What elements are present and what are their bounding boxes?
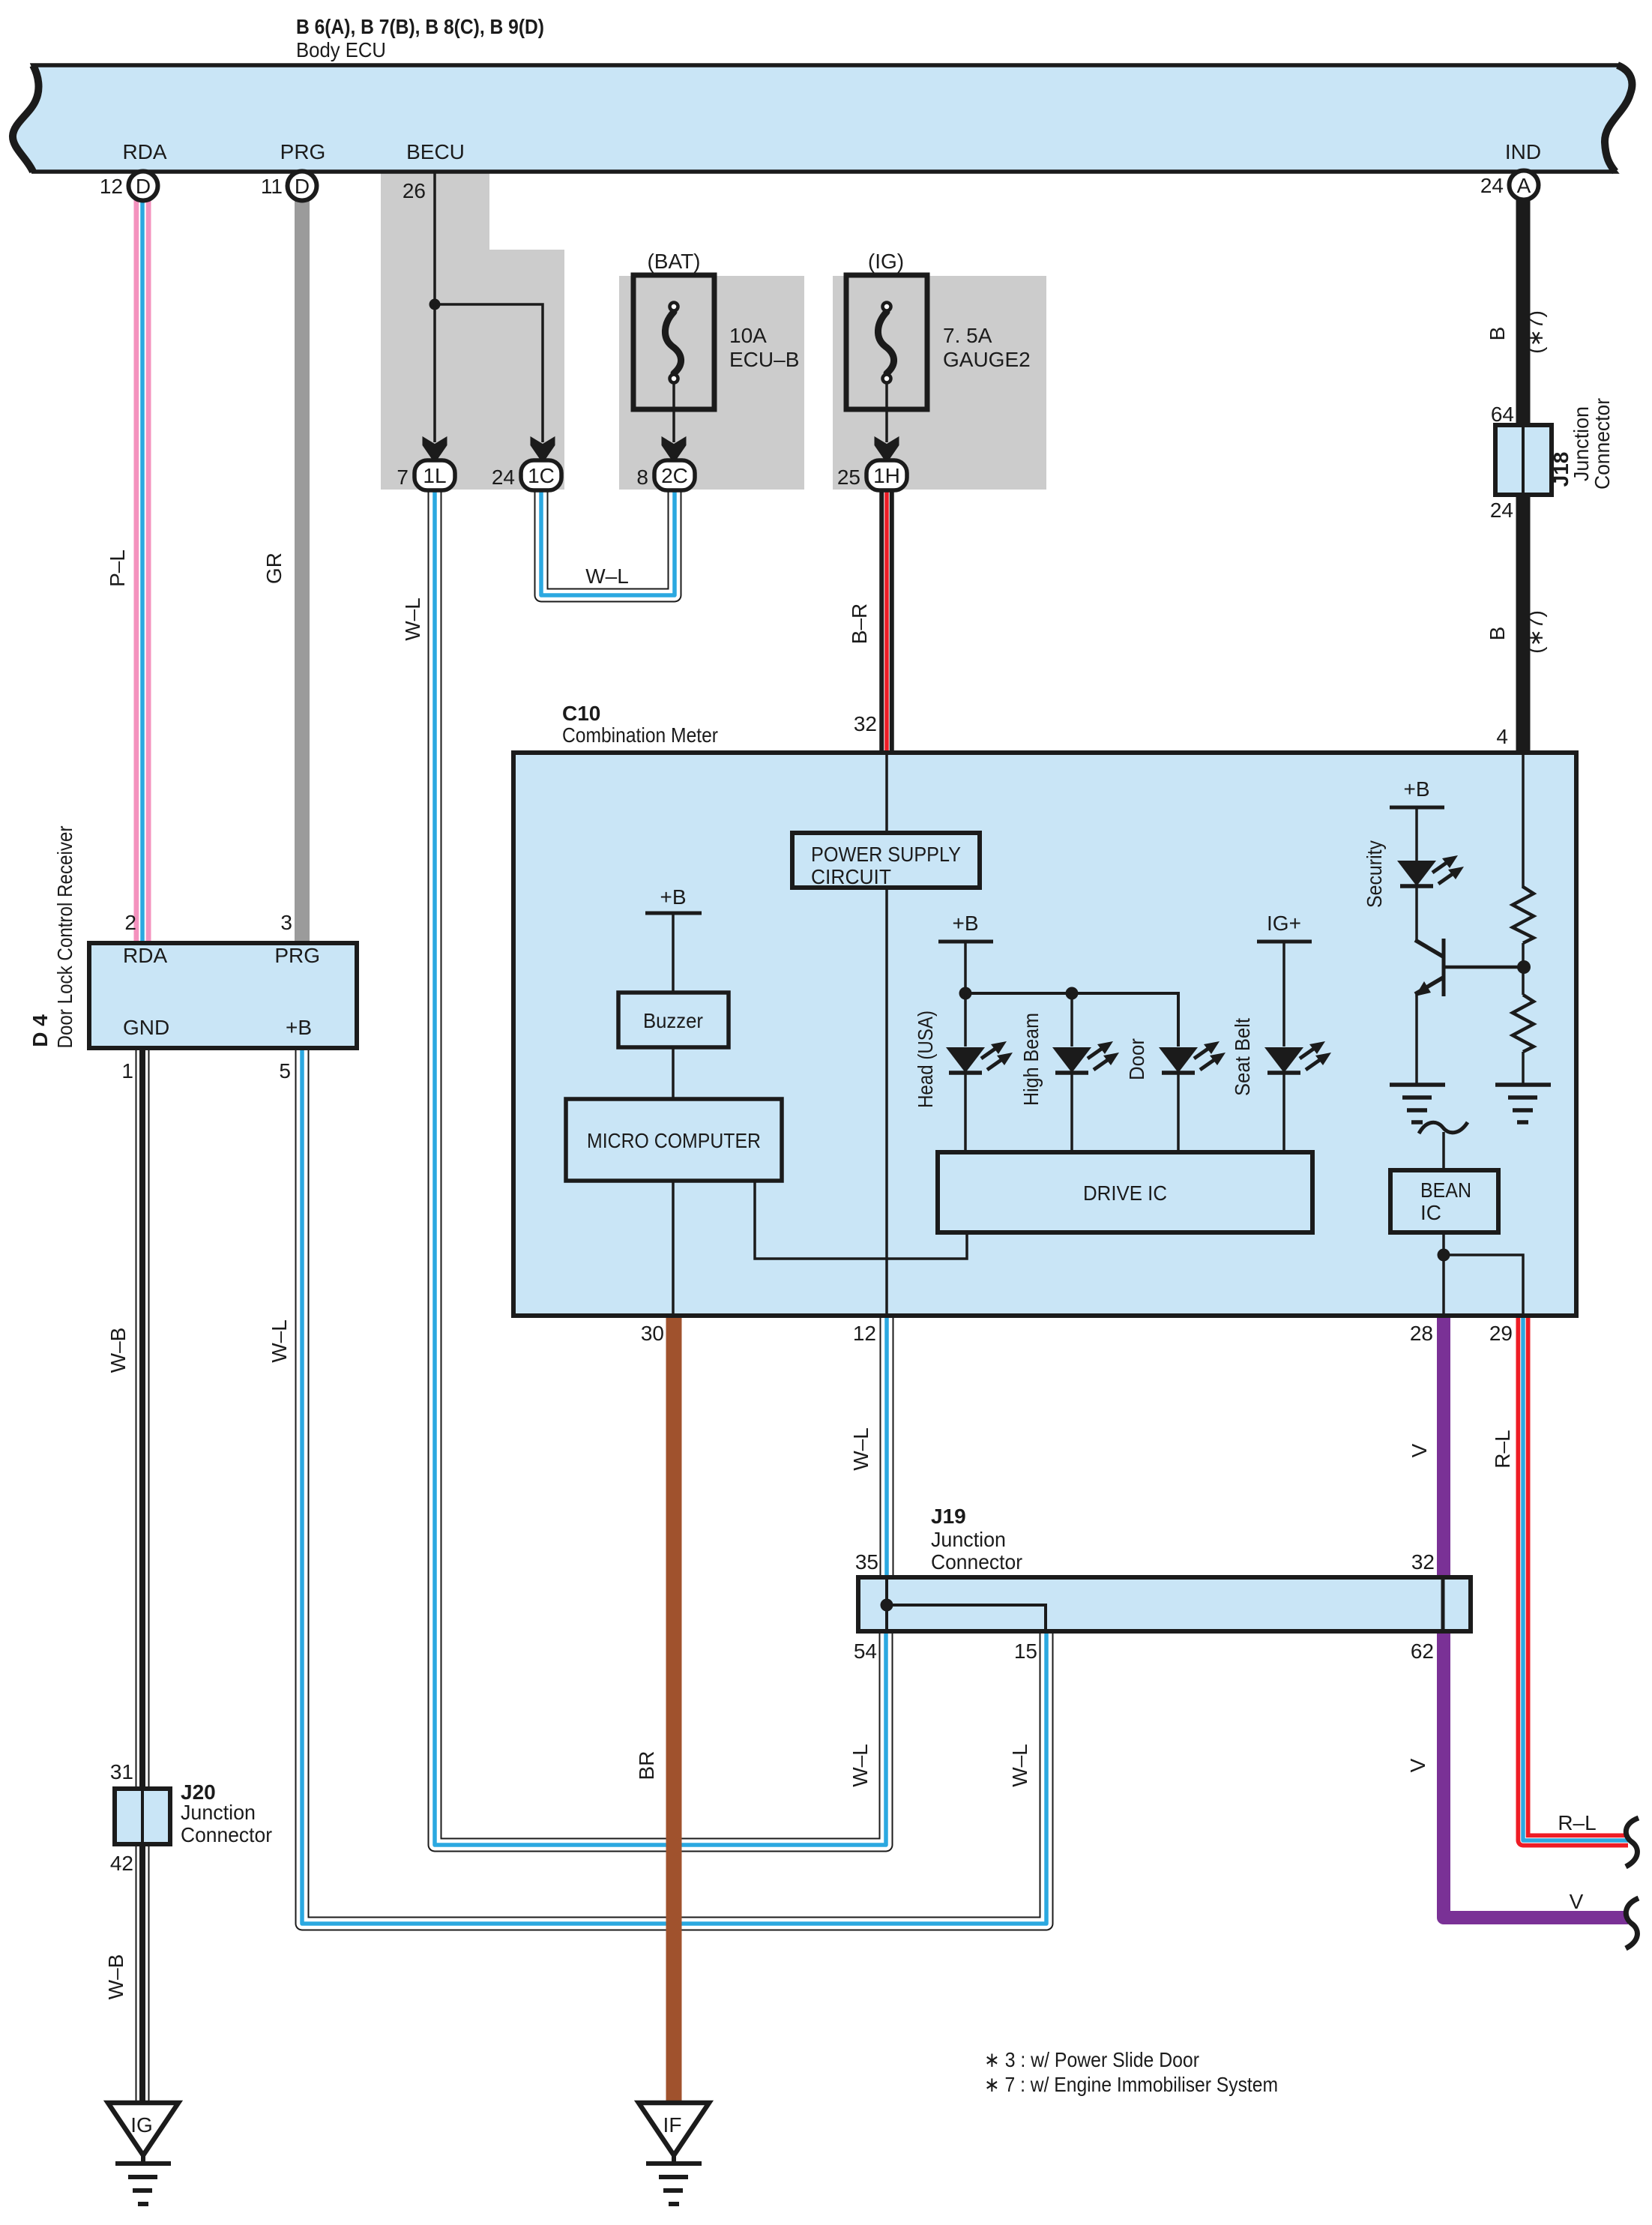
- svg-text:IF: IF: [663, 2113, 682, 2137]
- wire branch from junction to 1C: [435, 304, 543, 442]
- connector oval 8 2C: [654, 460, 695, 490]
- svg-text:42: 42: [110, 1852, 133, 1875]
- Body ECU band B6(A) B7(B) B8(C) B9(D): [13, 65, 1632, 172]
- wire R-L from meter pin 29 to break: [1523, 1316, 1628, 1840]
- svg-text:30: 30: [641, 1322, 664, 1345]
- svg-text:(BAT): (BAT): [647, 250, 700, 273]
- svg-text:31: 31: [110, 1760, 133, 1783]
- arrow into 1L: [423, 436, 447, 463]
- svg-text:Combination Meter: Combination Meter: [562, 723, 718, 747]
- svg-text:W–B: W–B: [106, 1328, 130, 1373]
- junction node on BECU wire: [429, 299, 441, 310]
- arrow into 2C: [662, 436, 687, 463]
- wire buzzer to micro computer: [672, 1047, 675, 1099]
- ground IG hatches: [115, 2155, 171, 2204]
- svg-text:2: 2: [124, 911, 136, 934]
- indicator LED High Beam: [1052, 993, 1119, 1154]
- svg-text:BECU: BECU: [406, 140, 465, 163]
- svg-text:5: 5: [279, 1059, 291, 1083]
- svg-text:1: 1: [121, 1059, 133, 1083]
- wire inside meter from pin 32 down to pin 12: [885, 754, 888, 1314]
- micro computer box: [566, 1099, 782, 1181]
- svg-text:POWER SUPPLY: POWER SUPPLY: [811, 843, 961, 866]
- wire B-R from 1H to meter pin 32: [879, 487, 894, 754]
- wire micro computer to drive ic: [755, 1181, 967, 1259]
- ground inside meter left: [1390, 1085, 1445, 1122]
- wire W-L from D4 +B down right up to J19 pin 15: [302, 1047, 1046, 1924]
- svg-text:PRG: PRG: [274, 944, 320, 967]
- svg-text:W–B: W–B: [104, 1954, 127, 2000]
- svg-text:V: V: [1570, 1890, 1584, 1913]
- svg-text:GR: GR: [262, 553, 286, 584]
- combination meter C10 box: [513, 753, 1576, 1316]
- svg-text:1H: 1H: [873, 464, 900, 487]
- arrow into 1C: [531, 436, 555, 463]
- svg-text:V: V: [1406, 1758, 1429, 1772]
- svg-text:Head (USA): Head (USA): [914, 1011, 937, 1108]
- svg-text:24: 24: [1490, 499, 1513, 522]
- wire micro computer to pin 30: [672, 1181, 675, 1314]
- svg-text:1L: 1L: [423, 464, 446, 487]
- ground IG triangle: [108, 2103, 178, 2155]
- svg-text:D: D: [136, 175, 151, 198]
- svg-text:D 4: D 4: [28, 1014, 52, 1047]
- svg-text:(IG): (IG): [868, 250, 904, 273]
- resistor R1: [1513, 887, 1534, 943]
- svg-text:(∗7): (∗7): [1524, 310, 1547, 354]
- svg-text:BEAN: BEAN: [1420, 1178, 1471, 1202]
- svg-text:DRIVE IC: DRIVE IC: [1083, 1181, 1167, 1205]
- connector circle 11 D: [288, 172, 317, 201]
- svg-text:W–L: W–L: [401, 597, 424, 641]
- svg-text:A: A: [1517, 174, 1531, 197]
- svg-text:54: 54: [854, 1640, 877, 1663]
- wire W-L U between 1C and 2C: [541, 487, 675, 595]
- svg-text:10A: 10A: [729, 324, 767, 347]
- svg-text:J19: J19: [931, 1505, 966, 1528]
- svg-text:MICRO COMPUTER: MICRO COMPUTER: [587, 1129, 761, 1152]
- shaded region ECU-B fuse: [619, 276, 804, 490]
- svg-text:+B: +B: [286, 1016, 312, 1039]
- svg-text:Seat Belt: Seat Belt: [1231, 1018, 1254, 1096]
- svg-text:11: 11: [261, 175, 283, 198]
- svg-text:V: V: [1408, 1443, 1431, 1457]
- Body ECU band torn right edge: [1605, 65, 1632, 172]
- svg-text:64: 64: [1491, 403, 1514, 426]
- svg-text:24: 24: [1480, 174, 1504, 197]
- svg-text:BR: BR: [635, 1751, 658, 1780]
- fuse box 7.5A GAUGE2: [846, 275, 927, 409]
- break squiggle V: [1626, 1898, 1639, 1948]
- svg-text:+B: +B: [1403, 777, 1429, 801]
- svg-text:IG+: IG+: [1267, 912, 1301, 935]
- svg-text:IG: IG: [130, 2113, 153, 2137]
- svg-text:Junction: Junction: [1570, 406, 1593, 481]
- wire P-L from pin 12D to D4 RDA: [134, 196, 151, 943]
- ground inside meter right: [1495, 1085, 1551, 1122]
- svg-text:CIRCUIT: CIRCUIT: [811, 865, 891, 888]
- svg-text:High Beam: High Beam: [1019, 1013, 1043, 1106]
- connector circle 24 A: [1510, 171, 1539, 200]
- svg-text:W–L: W–L: [849, 1427, 872, 1471]
- wire from meter pin 4 to resistor: [1522, 754, 1525, 888]
- svg-text:25: 25: [837, 466, 860, 489]
- svg-text:26: 26: [403, 179, 426, 202]
- svg-text:7: 7: [397, 466, 409, 489]
- drive IC box: [938, 1152, 1312, 1232]
- wire BR brown from meter pin 30 to IF ground: [666, 1316, 682, 2105]
- fuse box 10A ECU-B: [633, 275, 714, 409]
- svg-text:RDA: RDA: [122, 140, 166, 163]
- svg-text:7. 5A: 7. 5A: [943, 324, 992, 347]
- junction connector J19: [858, 1577, 1471, 1631]
- arrow into 1H: [875, 436, 899, 463]
- resistor R2: [1513, 995, 1534, 1052]
- svg-text:Buzzer: Buzzer: [643, 1009, 703, 1032]
- wire B black from A circle through J18 to meter pin 4: [1516, 199, 1531, 754]
- wire GR from pin 11D to D4 PRG: [295, 196, 310, 943]
- indicator LED Door: [1159, 1041, 1226, 1154]
- svg-text:Junction: Junction: [181, 1801, 256, 1824]
- junction connector J20: [115, 1789, 170, 1844]
- connector oval 7 1L: [414, 460, 455, 490]
- wire BEAN IC to pins 28 29: [1442, 1232, 1445, 1314]
- junction node base-divider: [1517, 960, 1531, 974]
- wire W-B from D4 GND to J20 to IG ground: [136, 1047, 150, 2105]
- svg-text:12: 12: [100, 175, 123, 198]
- svg-text:15: 15: [1014, 1640, 1037, 1663]
- svg-text:62: 62: [1411, 1640, 1434, 1663]
- svg-text:3: 3: [280, 911, 292, 934]
- svg-text:Security: Security: [1363, 840, 1386, 908]
- BEAN IC box: [1390, 1170, 1498, 1232]
- svg-text:28: 28: [1410, 1322, 1433, 1345]
- svg-text:GAUGE2: GAUGE2: [943, 348, 1031, 371]
- svg-text:GND: GND: [123, 1016, 169, 1039]
- svg-text:Door: Door: [1125, 1038, 1148, 1080]
- svg-text:12: 12: [853, 1322, 876, 1345]
- svg-text:24: 24: [492, 466, 515, 489]
- svg-text:Body ECU: Body ECU: [296, 38, 386, 61]
- wire fuse ECU-B to 2C: [672, 382, 675, 442]
- svg-text:Junction: Junction: [931, 1528, 1006, 1551]
- Body ECU band torn left edge: [13, 65, 39, 172]
- svg-text:∗ 3 : w/ Power Slide Door: ∗ 3 : w/ Power Slide Door: [984, 2048, 1199, 2071]
- svg-text:Connector: Connector: [931, 1550, 1022, 1574]
- svg-text:W–L: W–L: [848, 1744, 872, 1787]
- svg-text:C10: C10: [562, 702, 600, 725]
- svg-text:R–L: R–L: [1558, 1811, 1596, 1834]
- connector oval 24 1C: [521, 460, 561, 490]
- junction connector J18: [1495, 425, 1552, 495]
- svg-text:Connector: Connector: [1591, 398, 1614, 490]
- security LED: [1397, 855, 1464, 942]
- ground IF hatches: [646, 2155, 702, 2204]
- connector circle 12 D: [129, 172, 158, 201]
- wire from junction down to 1L: [433, 304, 436, 442]
- wire BECU 26 from band to junction: [433, 172, 436, 304]
- svg-text:B: B: [1486, 627, 1509, 641]
- svg-text:W–L: W–L: [268, 1319, 291, 1363]
- transistor Q: [1415, 939, 1524, 1085]
- svg-text:B–R: B–R: [848, 603, 871, 644]
- svg-text:4: 4: [1496, 725, 1508, 748]
- wire fuse GAUGE2 to 1H: [885, 382, 888, 442]
- svg-text:RDA: RDA: [123, 944, 167, 967]
- wire V purple from meter pin 28 through J19 to break: [1444, 1316, 1628, 1918]
- svg-text:D: D: [295, 175, 310, 198]
- ground IF triangle: [639, 2103, 709, 2155]
- svg-text:+B: +B: [952, 912, 978, 935]
- svg-text:2C: 2C: [661, 464, 688, 487]
- +B distribution bus to Head High Beam Door: [965, 993, 1178, 1047]
- svg-text:32: 32: [1411, 1550, 1435, 1574]
- svg-text:W–L: W–L: [1008, 1744, 1031, 1787]
- connector oval 25 1H: [866, 460, 907, 490]
- wire W-L from meter pin 12 to J19 pin 35: [880, 1316, 894, 1577]
- svg-text:W–L: W–L: [585, 564, 629, 588]
- power supply circuit box: [792, 833, 980, 888]
- shaded region BECU: [381, 172, 564, 490]
- svg-text:1C: 1C: [528, 464, 555, 487]
- wire W-L from 1L down right up to J19 pin 54: [435, 487, 886, 1845]
- svg-text:PRG: PRG: [280, 140, 326, 163]
- svg-text:+B: +B: [660, 885, 686, 909]
- indicator LED Seat Belt: [1264, 1041, 1331, 1154]
- svg-text:(∗7): (∗7): [1524, 610, 1547, 654]
- svg-text:35: 35: [855, 1550, 878, 1574]
- buzzer box: [618, 993, 729, 1047]
- svg-text:8: 8: [636, 466, 648, 489]
- svg-text:Door Lock Control Receiver: Door Lock Control Receiver: [53, 826, 76, 1049]
- D4 Door Lock Control Receiver box: [89, 943, 357, 1048]
- svg-text:IC: IC: [1420, 1201, 1441, 1224]
- shaded region GAUGE2 fuse: [833, 276, 1046, 490]
- svg-text:32: 32: [854, 712, 877, 735]
- svg-text:29: 29: [1489, 1322, 1513, 1345]
- svg-text:P–L: P–L: [106, 550, 129, 587]
- indicator LED Head (USA): [946, 993, 1013, 1154]
- antenna squiggle: [1419, 1122, 1468, 1133]
- svg-text:Connector: Connector: [181, 1823, 272, 1846]
- svg-text:IND: IND: [1505, 140, 1541, 163]
- svg-text:R–L: R–L: [1491, 1430, 1514, 1468]
- svg-text:B: B: [1486, 327, 1509, 341]
- svg-text:B 6(A), B 7(B), B 8(C), B 9(D): B 6(A), B 7(B), B 8(C), B 9(D): [296, 15, 544, 38]
- break squiggle R-L: [1626, 1818, 1639, 1867]
- svg-text:ECU–B: ECU–B: [729, 348, 799, 371]
- svg-text:∗ 7 : w/ Engine Immobiliser Sy: ∗ 7 : w/ Engine Immobiliser System: [984, 2073, 1278, 2096]
